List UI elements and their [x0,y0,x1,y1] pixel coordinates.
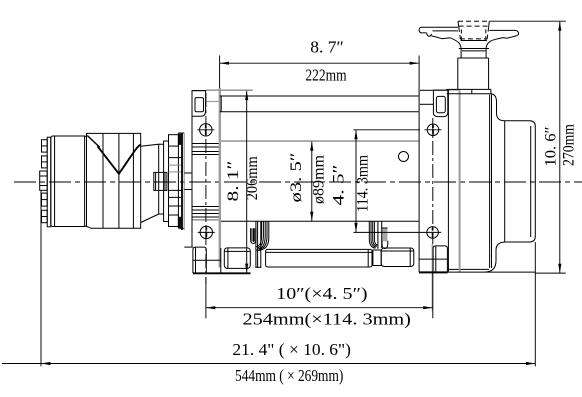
long tie rod [266,249,372,267]
rope end gray bar [382,228,387,242]
lever collar [459,48,489,50]
svg-text:114. 3mm: 114. 3mm [355,155,372,212]
tie-rod boss lines lower [192,207,219,218]
dim 8.7in/222mm extension lines [220,56,420,90]
housing bottom inner edge [448,268,489,270]
end cap inner verticals [504,121,506,242]
bolt B3 crosshair [425,124,442,136]
bolt B1 crosshair [197,124,214,136]
clutch boss right (thick) [433,90,447,116]
plate right edge [447,90,449,271]
rod coupling [373,250,381,266]
plate top hidden edge (gray) [206,89,253,91]
winch assembly groups [40,133,219,230]
bell V-notch (thick) [87,136,99,148]
bolt centerline vertical [205,93,207,284]
bolt B4 crosshair [420,227,441,239]
svg-text:544mm ( × 269mm): 544mm ( × 269mm) [235,366,343,385]
svg-text:ø89mm: ø89mm [311,154,328,204]
knob hidden sides [461,29,485,40]
flange top ear [169,135,179,146]
rope channel right [378,221,382,248]
shaft coupling square [154,172,167,190]
dim 10in/254mm extension lines [206,273,433,319]
housing bottom line [448,271,536,273]
tie rod right section [381,248,414,267]
motor end cap [47,137,51,227]
drum barrel bottom edge [221,220,419,222]
shaft boss on plate [184,173,192,190]
svg-text:10. 6″: 10. 6″ [543,127,560,167]
drum flange hole [399,152,409,162]
motor neck [141,144,159,222]
motor bell housing [87,133,141,228]
clutch boss left [192,91,206,117]
svg-text:254mm(×114. 3mm): 254mm(×114. 3mm) [243,310,411,329]
plate bottom line (thick) [193,272,251,274]
housing/plate boundary gray [459,91,461,272]
tie rod left section [224,248,250,269]
hanger channel verticals [256,221,261,268]
svg-text:4. 5″: 4. 5″ [331,165,348,206]
handle wing right [489,30,518,35]
housing top cap strip [447,89,491,93]
plate inner face gray band [219,88,221,268]
flange bolts side view (dark) [179,134,182,145]
left rope curls [256,221,261,247]
lever stem block [458,57,489,59]
motor flange plates [159,144,164,214]
handle neck [461,40,487,42]
adapter plate verticals [181,133,183,230]
svg-text:ø3. 5″: ø3. 5″ [288,153,305,203]
plate bottom line (thick) [419,271,448,273]
svg-text:8. 1″: 8. 1″ [225,161,242,202]
svg-text:222mm: 222mm [305,66,346,85]
main horizontal centerline [14,181,582,183]
clutch knob (dashed hidden top) [458,20,489,22]
svg-text:10″(×4. 5″): 10″(×4. 5″) [276,284,367,303]
rope end loop [382,241,388,249]
tie-rod boss lines upper [192,144,219,155]
dim 8.7in/222mm line [220,62,420,64]
right foot [433,246,447,273]
left plate panel [192,91,206,248]
rope hanger U left [251,228,256,243]
left foot [184,246,193,248]
flange bottom ear [169,215,179,227]
dim 4.5 extension lines to bolt rows [353,130,420,233]
dim 21.4in/544mm extension lines [41,190,535,366]
bolt B2 crosshair [198,226,215,238]
handle wing left [419,27,458,33]
svg-text:270mm: 270mm [561,124,578,166]
dim 10.6in/270mm extension lines [489,21,566,273]
dim 21.4in/544mm line [2,363,535,365]
winch cover plate top lines [220,95,419,97]
drum flange inner verticals [489,95,491,269]
plate boss gray line [193,219,219,221]
dim 10.6in/270mm line [559,21,561,273]
motor port tabs left column [40,140,48,223]
svg-text:206mm: 206mm [244,156,261,200]
dim 10in/254mm line [206,307,433,309]
right plate panel [418,90,420,272]
right bolt centerline vertical [432,118,434,244]
motor main cylinder [51,136,87,227]
plate inner vertical [220,96,222,112]
drum barrel top edge (gray) [221,140,419,142]
svg-text:21. 4" ( × 10. 6"): 21. 4" ( × 10. 6") [232,340,351,359]
right rope curls [369,221,375,248]
svg-text:8. 7″: 8. 7″ [310,38,344,57]
dim 8.1in/206mm line [246,91,248,273]
dim dia3.5in/89mm line [311,141,313,221]
dim 4.5in/114.3mm line [355,130,357,233]
